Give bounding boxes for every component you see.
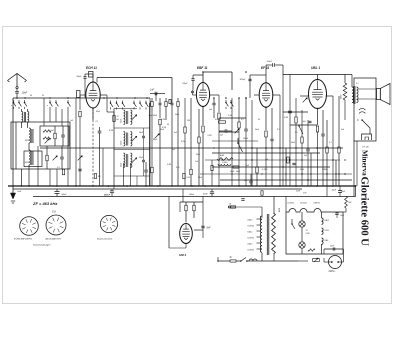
svg-text:50: 50	[258, 119, 260, 121]
wire from switch S1d	[49, 109, 51, 122]
coil L8	[131, 132, 132, 147]
capacitor C13	[244, 128, 248, 130]
capacitor C16	[306, 148, 310, 150]
core L7L8	[126, 133, 128, 146]
capacitor C19 tone	[359, 108, 365, 110]
small box on bus	[261, 191, 263, 196]
wire plug top	[324, 248, 344, 250]
svg-text:10nF: 10nF	[22, 92, 28, 95]
svg-text:C: C	[357, 118, 359, 122]
trimmer T5	[235, 129, 240, 134]
node dots on top bus	[16, 97, 18, 99]
svg-text:UCH11: UCH11	[300, 202, 307, 204]
trimmer volume	[303, 98, 308, 103]
capacitor 20pF V2 grid	[191, 78, 194, 80]
IF frame right	[149, 103, 151, 186]
resistor R24	[185, 205, 187, 211]
wire mesh y174	[200, 173, 352, 175]
wire speaker box down right	[356, 141, 358, 186]
wire V2 bottom lead	[202, 107, 204, 126]
wire K1 internals	[15, 122, 17, 169]
wire V3 left lead	[254, 94, 259, 96]
inner box K1a	[40, 126, 69, 146]
core L7bL8b	[126, 154, 128, 167]
plug PL1	[329, 256, 342, 269]
component 18	[231, 206, 236, 208]
capacitor on x80	[78, 168, 81, 170]
svg-text:UCH11: UCH11	[248, 226, 254, 228]
coil L1	[22, 112, 23, 123]
wire V2 top to right	[203, 71, 232, 73]
wire mesh y132	[219, 131, 239, 133]
resistor WW zigzag	[343, 83, 346, 100]
heater bumps row	[286, 209, 326, 213]
page border frame	[3, 27, 392, 304]
svg-text:ECH11/EBF11/EF11: ECH11/EBF11/EF11	[14, 239, 32, 241]
wire plate line y77	[97, 77, 172, 79]
wire V4 top lead	[317, 75, 319, 80]
capacitor C row2	[171, 102, 174, 104]
junction dots right	[279, 147, 280, 148]
svg-text:0,3MΩ: 0,3MΩ	[322, 169, 328, 171]
resistor R12 V2 cathode	[202, 126, 204, 132]
transformer TR1 primary	[352, 87, 354, 103]
switch S2c	[122, 101, 124, 103]
wire WW bottom	[344, 100, 346, 120]
switch S1b	[18, 100, 20, 102]
transformer TR2 taps	[257, 218, 261, 220]
trimmer T1	[45, 139, 50, 144]
capacitor 1nF coupling	[154, 92, 156, 96]
resistor R19	[295, 117, 297, 123]
svg-text:UY 1N: UY 1N	[362, 147, 369, 149]
wire V1 bottom lead	[92, 109, 94, 121]
svg-text:25nF: 25nF	[254, 129, 260, 131]
capacitor C V3 right	[270, 138, 273, 140]
capacitor 5nF V4	[309, 120, 312, 122]
wire V4 right lead	[326, 95, 333, 97]
svg-text:10μF: 10μF	[332, 190, 337, 192]
wire V4 bottom lead	[317, 109, 319, 126]
wire V1 top lead	[92, 74, 94, 82]
svg-text:0,5MΩ: 0,5MΩ	[222, 162, 228, 164]
capacitor C15b	[292, 162, 295, 164]
coil L4	[29, 150, 31, 165]
svg-text:50pF: 50pF	[77, 76, 83, 78]
zigzag L11	[217, 158, 233, 161]
wire mesh y167	[212, 166, 330, 168]
wire V2 right lead	[210, 94, 219, 96]
wire UM4 right	[194, 229, 203, 231]
svg-text:8nF: 8nF	[207, 228, 212, 230]
switch S1c	[24, 100, 26, 102]
switch S4 tone	[362, 120, 370, 128]
svg-text:0,1: 0,1	[96, 121, 99, 123]
resistor R14	[218, 113, 220, 119]
switch S2e	[139, 101, 141, 103]
wire V3 bottom lead	[265, 108, 267, 130]
wire mesh y141	[212, 140, 258, 142]
svg-text:UBL1/UM4/UY1N: UBL1/UM4/UY1N	[45, 238, 61, 241]
resistor R1	[54, 133, 56, 139]
wire mesh y112	[283, 111, 308, 113]
wire WW top	[344, 75, 346, 84]
capacitor C7	[98, 130, 102, 132]
svg-text:UM 4: UM 4	[179, 253, 186, 257]
wire mesh y118	[219, 117, 246, 119]
trimmer T4	[155, 134, 160, 139]
svg-text:25: 25	[41, 95, 44, 97]
capacitor 10uF bus join	[338, 190, 342, 192]
svg-text:50nF: 50nF	[62, 194, 68, 196]
wire vertical x29	[28, 169, 30, 186]
wire plug left lead	[324, 261, 329, 263]
wire vertical x62	[61, 109, 63, 126]
fuse Si	[230, 260, 236, 262]
switch S1f	[67, 100, 69, 102]
svg-text:160nF: 160nF	[189, 194, 195, 196]
switch S2f	[145, 101, 147, 103]
capacitor C11 at bus	[144, 169, 148, 171]
wire vertical x38	[37, 146, 39, 186]
capacitor C18	[321, 133, 325, 135]
svg-text:1,5nF: 1,5nF	[49, 130, 55, 132]
IF tie y149	[114, 149, 150, 151]
tube V4 UBL1	[309, 80, 327, 109]
svg-text:Minerva: Minerva	[361, 150, 369, 176]
switch S2g	[225, 100, 227, 102]
trimmer T2	[132, 115, 137, 120]
capacitor C20 on bus	[55, 191, 60, 193]
wire vertical x68	[67, 109, 69, 186]
svg-text:0,1M: 0,1M	[161, 119, 165, 121]
trimmer T3b	[132, 158, 137, 163]
wire vertical x336	[335, 160, 337, 186]
wire x232 vertical	[231, 98, 233, 186]
wire top bus	[13, 97, 150, 99]
core L1L2	[23, 112, 25, 122]
resistor R25	[193, 205, 195, 211]
transformer TR1 secondary	[357, 87, 359, 103]
svg-text:0,3: 0,3	[241, 119, 244, 121]
wire mesh y125	[290, 124, 317, 126]
transformer TR2 resistance wire	[272, 213, 276, 254]
terminal at wire 207	[228, 206, 230, 208]
junction dots extra	[213, 147, 214, 148]
resistor R19b	[287, 157, 289, 163]
coil L8b	[131, 153, 132, 168]
wire TR2 bottom leads	[261, 253, 263, 261]
resistor R9 row	[151, 102, 153, 107]
capacitor C15	[288, 110, 292, 112]
wire x283 vertical	[282, 75, 284, 187]
magic eye top frame	[180, 201, 203, 203]
speaker LS1	[377, 89, 381, 100]
svg-text:UBL1: UBL1	[248, 220, 253, 222]
wire mains left end	[217, 257, 219, 261]
socket circle P1	[20, 217, 39, 236]
coil L7	[124, 132, 125, 147]
switch S2h	[230, 100, 232, 102]
inner box K1b	[24, 151, 42, 167]
zigzag R28	[308, 249, 315, 251]
resistor R22	[326, 147, 328, 153]
wire x203 vertical	[202, 197, 204, 239]
svg-text:UCH11: UCH11	[288, 202, 295, 204]
resistor 0,3M x63	[62, 169, 64, 175]
wire TR2 top leads	[273, 197, 275, 215]
svg-text:20nF: 20nF	[266, 61, 273, 63]
small rect P1	[169, 100, 171, 104]
core lines L3	[31, 129, 33, 143]
svg-text:0,1: 0,1	[329, 142, 332, 144]
svg-text:0,1: 0,1	[356, 83, 359, 85]
svg-text:0,15: 0,15	[187, 177, 191, 179]
svg-text:20pF: 20pF	[182, 83, 189, 85]
wire vertical x76	[75, 98, 77, 186]
svg-text:0,5M: 0,5M	[284, 117, 288, 119]
svg-text:UBL 1: UBL 1	[311, 66, 320, 70]
wire mesh y180	[220, 179, 352, 181]
core L5L6	[126, 111, 128, 124]
capacitor 2uF	[224, 129, 226, 132]
svg-text:AWA: AWA	[278, 207, 281, 213]
wire x150 vertical	[149, 98, 151, 186]
tube V5 UM4	[180, 224, 193, 244]
switch S1a	[13, 100, 15, 102]
svg-text:Sockelschaltungen: Sockelschaltungen	[33, 244, 51, 247]
coil L6	[131, 110, 132, 125]
wire mesh y160	[205, 159, 340, 161]
svg-text:5mW: 5mW	[296, 191, 300, 193]
switch S1d	[49, 100, 51, 102]
wire IF verticals to bus	[123, 163, 125, 186]
trimmer T1b	[53, 156, 58, 161]
svg-text:5nF: 5nF	[18, 191, 22, 193]
resistor R10c	[190, 169, 192, 175]
wire UM4 bottom	[169, 247, 186, 249]
svg-text:UCH: UCH	[325, 230, 330, 232]
wire vertical x103	[102, 148, 104, 186]
wire bus join x327	[326, 186, 328, 197]
svg-text:UBL1: UBL1	[325, 220, 330, 222]
socket circle P3	[100, 215, 117, 232]
capacitor 5nF bus	[249, 180, 252, 182]
wire x169 vertical	[168, 197, 170, 249]
svg-text:50: 50	[30, 95, 32, 97]
capacitor grid V2 side	[191, 90, 194, 92]
svg-text:70: 70	[117, 116, 119, 118]
wire top bus right segment	[150, 93, 165, 95]
svg-text:ZF = 463 kHz: ZF = 463 kHz	[32, 201, 57, 206]
svg-text:UCH11: UCH11	[248, 238, 254, 240]
svg-text:0,1: 0,1	[277, 129, 280, 131]
zigzag R K1a	[43, 130, 51, 132]
switch S5 mains	[241, 258, 246, 262]
wire top right bus y74	[283, 74, 345, 76]
connector bumps	[249, 259, 257, 261]
tube V3 EF11	[259, 83, 273, 107]
trimmer T3	[132, 136, 137, 141]
coil L2	[28, 112, 29, 123]
svg-text:0,5MΩ: 0,5MΩ	[215, 119, 221, 121]
capacitor 50pF grid V1	[83, 76, 86, 78]
resistor R14b horizontal	[219, 121, 226, 123]
svg-text:0,1M: 0,1M	[228, 115, 232, 117]
resistor R3	[46, 155, 48, 161]
wire 20nF chain y65	[265, 65, 267, 75]
heater box	[286, 212, 343, 254]
switch S2b	[116, 101, 118, 103]
wire x156 vertical	[155, 94, 157, 102]
dashed shield V1	[92, 109, 94, 187]
tube V2 EBF11	[196, 83, 209, 107]
socket circle P2	[46, 215, 66, 235]
capacitor near 243	[241, 198, 244, 200]
wire vertical x286b	[285, 148, 287, 186]
resistor R10	[151, 167, 153, 173]
lamp LA1	[299, 221, 305, 227]
capacitor C row1	[159, 102, 162, 104]
svg-text:50nΩ: 50nΩ	[230, 171, 235, 173]
wire heater box up	[285, 197, 287, 213]
capacitor C4	[61, 134, 65, 136]
antenna A1	[8, 74, 27, 81]
resistor R17	[233, 166, 239, 168]
lamp LA2	[299, 242, 305, 248]
coil L7b	[124, 153, 125, 168]
resistor R15	[238, 122, 240, 128]
wire vertical x50	[49, 169, 51, 186]
grid cap box V1	[77, 91, 81, 98]
capacitor 100pF V3	[248, 78, 251, 80]
tube V1 ECH11	[86, 82, 100, 108]
capacitor 8nF UM4	[201, 225, 204, 227]
svg-text:UCH11: UCH11	[248, 250, 254, 252]
speaker LS1 box	[354, 78, 376, 141]
switch S2d	[133, 101, 135, 103]
IF frame left	[113, 109, 115, 187]
capacitor 10nF antenna	[15, 90, 19, 92]
resistor R row2	[165, 102, 167, 107]
svg-text:30: 30	[167, 124, 169, 126]
resistor R23	[338, 147, 340, 153]
capacitor IF g3	[142, 159, 145, 161]
bus B1 thick	[8, 185, 356, 187]
svg-text:UBF11: UBF11	[314, 202, 320, 204]
wire heater internals	[301, 212, 303, 221]
wire mains line	[218, 260, 230, 262]
capacitor C21 plug	[332, 247, 334, 250]
wire heater to plug	[298, 260, 308, 262]
svg-text:0,15: 0,15	[176, 167, 180, 169]
wire bus join right	[355, 186, 357, 197]
wire V3 right lead	[273, 94, 280, 96]
wire vertical x311	[310, 153, 312, 186]
wire speaker box down left	[353, 141, 355, 197]
svg-text:EBF 11: EBF 11	[197, 66, 208, 70]
coil L5	[124, 110, 125, 125]
wire heater right	[343, 211, 346, 213]
svg-text:25nF: 25nF	[195, 154, 201, 156]
resistor 200 x95	[94, 174, 96, 179]
coil L3	[29, 128, 31, 143]
transformer TR2 core	[266, 214, 268, 255]
coil L11b	[218, 164, 231, 166]
switch S1e	[55, 100, 57, 102]
IF tie y108	[114, 108, 137, 110]
resistor R13	[198, 137, 200, 143]
wire V1 right lead	[100, 94, 107, 96]
resistor R9b	[159, 119, 161, 125]
svg-text:UBL1: UBL1	[248, 232, 253, 234]
capacitor 20nF	[272, 63, 274, 67]
capacitor 5nF x214	[212, 102, 215, 104]
switch S right	[299, 126, 303, 134]
wire vertical x21	[21, 169, 23, 186]
transformer TR1 core	[353, 86, 355, 104]
wire from switch S1e	[55, 109, 57, 122]
bus B2	[13, 188, 302, 190]
svg-text:UW: UW	[348, 202, 351, 204]
wire V2 top lead	[202, 72, 204, 83]
coil bumps right heater	[322, 218, 324, 224]
wire AGC line y148	[40, 147, 343, 149]
svg-text:220V~: 220V~	[328, 270, 337, 273]
svg-text:0,2M: 0,2M	[208, 135, 212, 137]
wire V3 top lead	[265, 75, 267, 82]
resistor R11	[184, 127, 186, 133]
wire vertical x44	[43, 98, 45, 126]
bus B3	[33, 196, 356, 198]
capacitor C20b on bus	[210, 191, 214, 193]
svg-text:30nF: 30nF	[203, 194, 208, 196]
svg-text:EF 11: EF 11	[261, 66, 269, 70]
ground G1	[12, 186, 14, 193]
wire x183 vertical	[182, 189, 184, 202]
svg-text:20pF: 20pF	[174, 114, 180, 116]
resistor R16	[256, 167, 258, 173]
resistor R20	[301, 137, 303, 143]
terminal bump under box	[362, 134, 372, 140]
IF tie y176	[114, 175, 150, 177]
svg-text:ECH 11: ECH 11	[86, 66, 97, 70]
capacitor C5	[60, 156, 64, 158]
wire V4 left lead	[300, 95, 308, 97]
wire mesh y153	[212, 152, 320, 154]
svg-text:0,5M: 0,5M	[181, 141, 185, 143]
wire V2 left lead	[193, 94, 197, 96]
switch S3 mid	[238, 143, 243, 152]
svg-text:200pF: 200pF	[242, 138, 249, 140]
wire x252 vertical	[251, 100, 253, 186]
resistor R5 70k	[113, 116, 115, 122]
switch S6 heater	[291, 219, 293, 224]
small box x212	[211, 166, 213, 171]
svg-text:Skalenseilantrieb: Skalenseilantrieb	[97, 238, 113, 241]
junction dots bus	[21, 185, 23, 187]
svg-text:200: 200	[97, 176, 101, 178]
svg-text:0,3M: 0,3M	[167, 164, 171, 166]
trimmer on x80	[78, 156, 83, 161]
svg-text:200: 200	[186, 120, 190, 122]
svg-text:0,1MΩ: 0,1MΩ	[262, 169, 268, 171]
capacitor 160nF bus left	[110, 190, 114, 192]
wire plug right lead	[342, 261, 344, 263]
resistor R27 vdr	[313, 259, 320, 262]
capacitor IF g2	[142, 135, 145, 137]
wire left edge vertical	[12, 98, 14, 186]
